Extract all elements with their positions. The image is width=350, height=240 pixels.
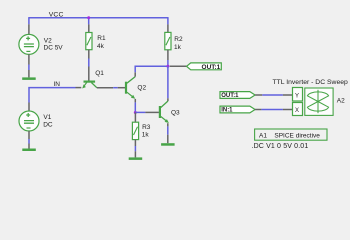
svg-text:V2: V2 [44,37,52,44]
wire R1 to Q1 base [88,59,90,67]
svg-text:A1: A1 [259,132,267,139]
svg-text:R1: R1 [97,35,106,42]
svg-text:IN:1: IN:1 [221,108,233,114]
tag IN:1 (to A2 X) [220,106,255,114]
tag OUT:1 (to A2 Y) [220,92,255,100]
wire VCC drop to V2 [28,17,30,24]
transistor Q3 [160,101,169,123]
svg-text:1k: 1k [174,44,182,51]
voltage source V2 [19,24,39,64]
wire Q2 collector up and right to OUT node [134,72,136,76]
svg-text:R3: R3 [142,124,151,131]
ground below Q3 [161,135,175,146]
wire R3 to ground [134,146,136,151]
svg-text:Q3: Q3 [171,109,180,116]
svg-text:VCC: VCC [49,12,64,19]
XY recorder A2 [305,88,333,115]
transistor Q2 [126,77,135,99]
ground below V2 [22,70,36,80]
wire Q3 emitter to ground [167,123,169,126]
svg-text:DC: DC [43,122,53,129]
junction OUT [166,65,169,68]
junction VCC/R1 [87,16,90,19]
A2 X input cell [293,103,303,116]
wire VCC drop to R1 [88,18,90,25]
svg-text:1k: 1k [142,131,150,138]
resistor R2 [165,24,171,60]
svg-text:Y: Y [295,93,299,99]
wire V1 to ground [28,139,30,144]
transistor Q1 [82,67,97,89]
SPICE directive A1 box [255,129,327,140]
svg-text:OUT:1: OUT:1 [221,93,239,99]
ground below V1 [22,144,36,152]
A2 Y input cell [293,88,303,102]
svg-text:Q1: Q1 [95,70,104,77]
svg-text:X: X [295,108,299,114]
junction Q2e/R3/Q3b [134,111,137,114]
svg-text:4k: 4k [97,43,105,50]
svg-text:IN: IN [54,81,61,88]
svg-text:A2: A2 [337,97,345,104]
svg-text:R2: R2 [174,36,183,43]
svg-text:DC 5V: DC 5V [44,45,64,52]
resistor R1 [86,24,92,58]
wire IN (V1 to Q1 emitter) [29,88,76,103]
svg-text:SPICE directive: SPICE directive [274,132,320,139]
ground below R3 [129,151,143,160]
wire tag to Y input [255,94,262,96]
svg-text:TTL Inverter - DC Sweep: TTL Inverter - DC Sweep [273,79,349,86]
wire V2 to ground [28,65,30,71]
svg-text:V1: V1 [43,114,51,121]
wire VCC horizontal [29,17,168,19]
wire OUT node down to Q3 collector [167,66,169,98]
resistor R3 [132,113,138,147]
svg-text:Q2: Q2 [137,85,146,92]
wire tag to X input [255,109,261,111]
svg-text:OUT:1: OUT:1 [202,64,221,71]
wire R2 to OUT junction [167,60,169,66]
tag OUT:1 (output flag) [187,63,222,71]
voltage source V1 [19,103,39,140]
wire VCC drop to R2 [167,17,169,24]
wire Q2 emitter down to node [134,99,136,103]
svg-text:.DC V1 0 5V 0.01: .DC V1 0 5V 0.01 [252,143,309,150]
wire Q1 collector to Q2 base [97,87,113,89]
wire OUT junction to tag [170,65,187,67]
wire node to Q3 base [135,111,145,113]
